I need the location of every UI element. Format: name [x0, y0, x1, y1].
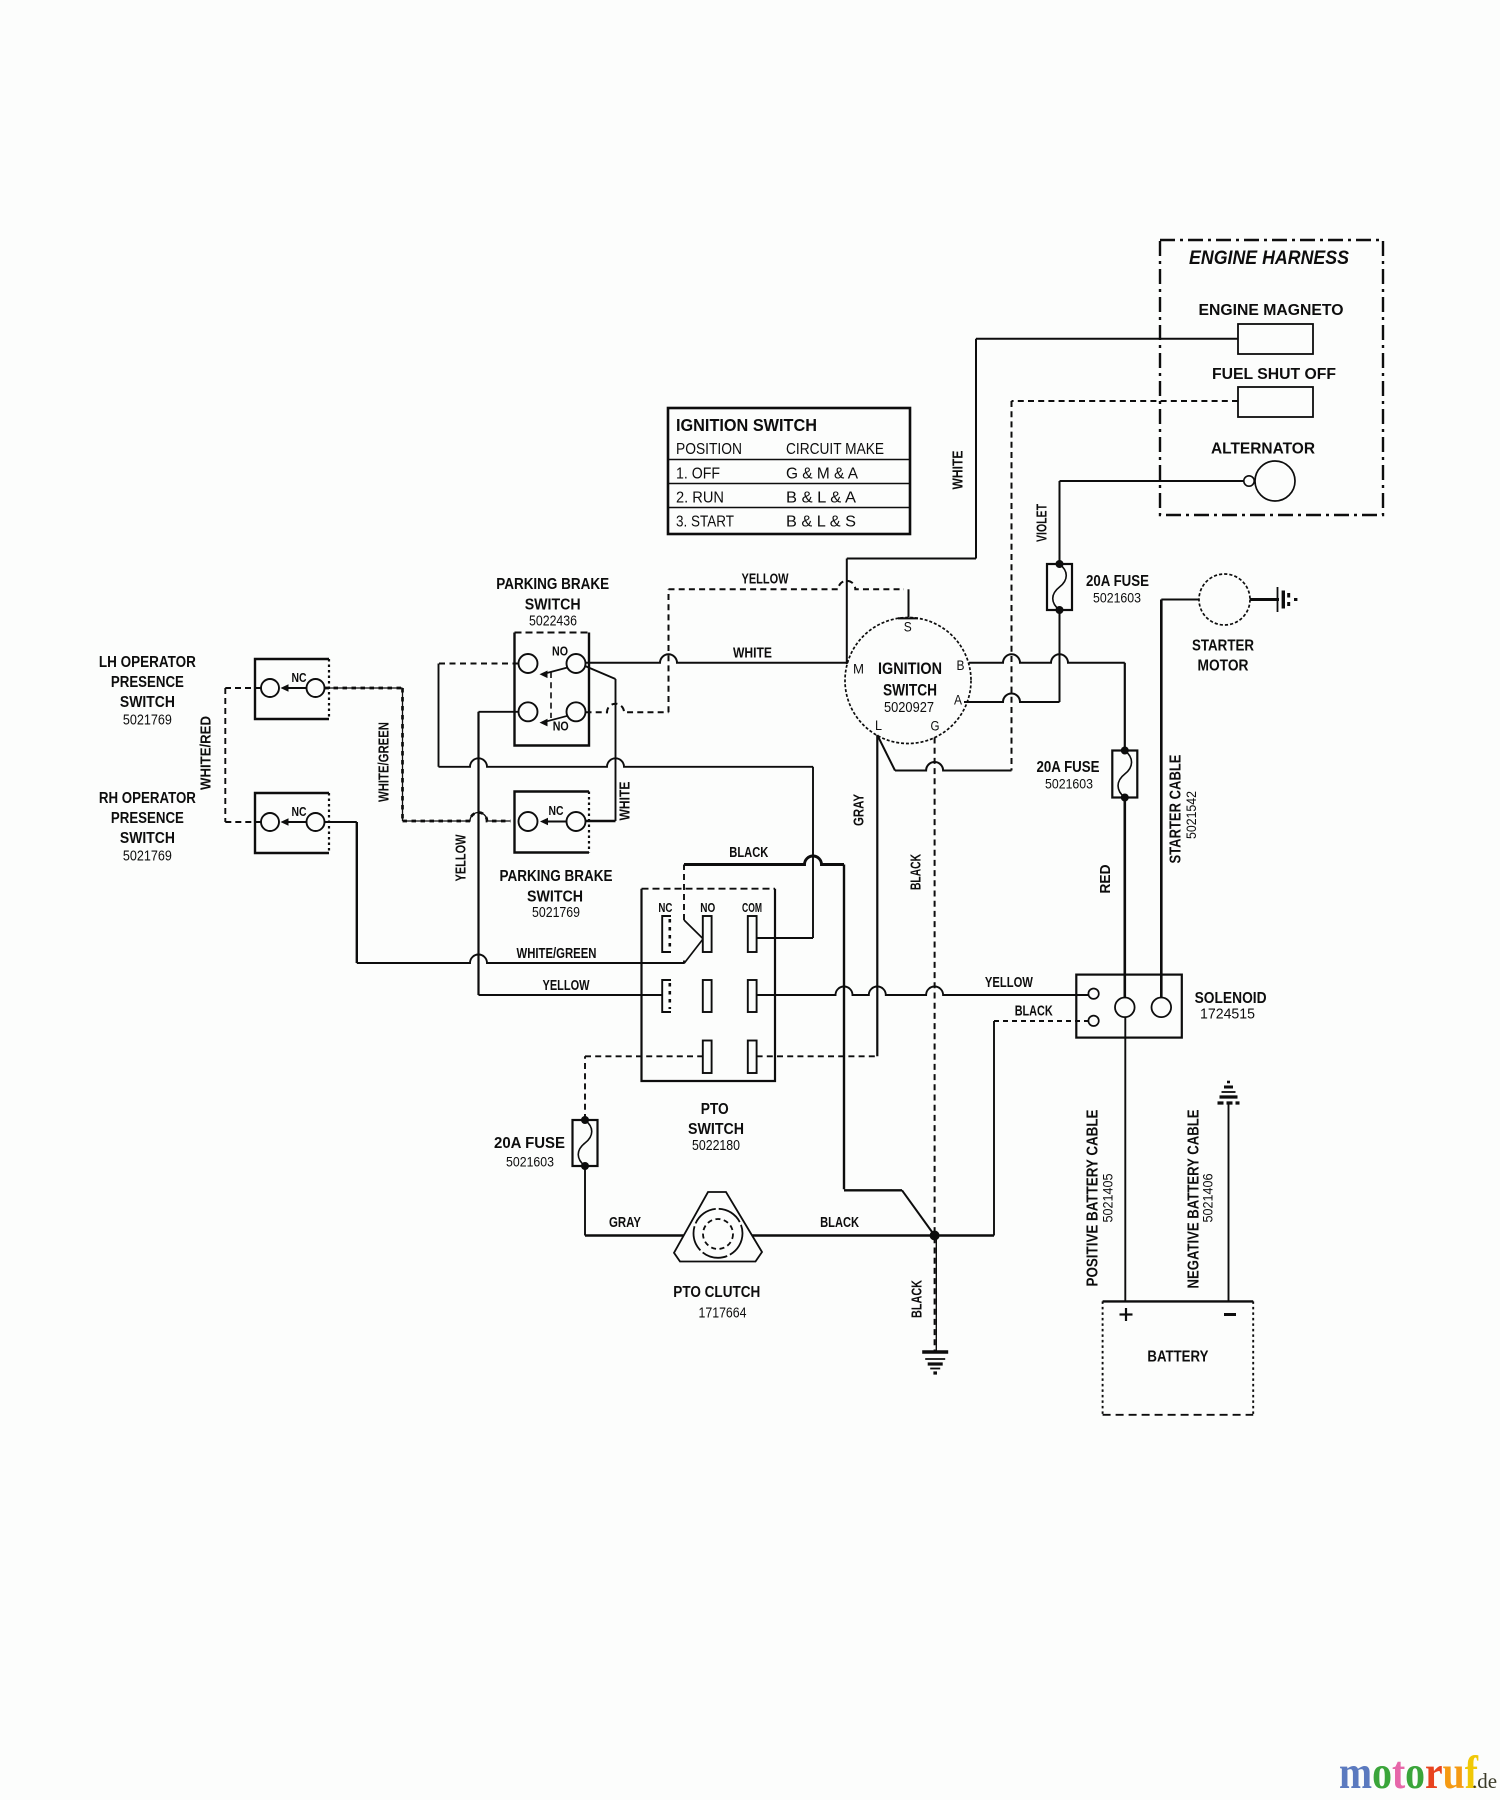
- fuse F2 label: [1037, 759, 1100, 792]
- yellow wire label: [742, 572, 789, 588]
- LH switch lever: [281, 684, 307, 692]
- wire white to M terminal: [586, 654, 847, 663]
- svg-text:PTO CLUTCH: PTO CLUTCH: [673, 1284, 760, 1301]
- wire white/green LH to PB2: [325, 688, 511, 821]
- svg-text:BLACK: BLACK: [909, 854, 925, 890]
- terminal A: [954, 693, 962, 708]
- solenoid box: [1076, 975, 1182, 1038]
- svg-text:BLACK: BLACK: [1015, 1004, 1053, 1020]
- white wire label (vertical): [951, 450, 967, 489]
- svg-text:A: A: [954, 693, 962, 708]
- svg-text:L: L: [875, 718, 882, 733]
- svg-text:WHITE/GREEN: WHITE/GREEN: [377, 722, 393, 802]
- table header row: [676, 441, 884, 458]
- svg-text:STARTER: STARTER: [1192, 638, 1254, 655]
- battery label: [1147, 1349, 1209, 1366]
- svg-text:WHITE/RED: WHITE/RED: [199, 716, 215, 790]
- svg-text:YELLOW: YELLOW: [454, 834, 470, 881]
- svg-text:M: M: [853, 662, 864, 677]
- svg-text:5021769: 5021769: [123, 849, 172, 865]
- table row OFF: [676, 466, 859, 483]
- gray wire label (vertical): [852, 794, 868, 826]
- svg-text:PARKING BRAKE: PARKING BRAKE: [500, 868, 613, 885]
- fuse F3 20A: [573, 1116, 598, 1170]
- svg-text:20A FUSE: 20A FUSE: [1086, 573, 1149, 590]
- svg-text:BLACK: BLACK: [729, 845, 768, 861]
- parking brake switch 2 box: [515, 792, 590, 853]
- white/red label (vertical): [199, 716, 215, 790]
- wire gray from L: [876, 735, 878, 1056]
- battery box: [1103, 1301, 1254, 1414]
- battery minus terminal: [1224, 1313, 1236, 1316]
- table line 3: [668, 507, 910, 509]
- svg-text:RH OPERATOR: RH OPERATOR: [99, 790, 196, 807]
- junction node: [930, 1231, 940, 1241]
- wire A to violet: [964, 694, 1060, 703]
- fuel shut off label: [1212, 366, 1336, 383]
- svg-text:5022436: 5022436: [529, 614, 577, 630]
- ignition switch circle: [845, 618, 971, 744]
- gray label: [609, 1215, 641, 1231]
- svg-text:NO: NO: [552, 644, 568, 659]
- PB1 lever top: [540, 668, 568, 679]
- svg-text:GRAY: GRAY: [609, 1215, 641, 1231]
- battery plus terminal: [1120, 1308, 1133, 1321]
- solenoid post starter: [1152, 998, 1172, 1018]
- svg-text:POSITION: POSITION: [676, 441, 742, 458]
- svg-text:NC: NC: [292, 804, 307, 819]
- svg-text:20A FUSE: 20A FUSE: [494, 1135, 565, 1152]
- svg-text:FUEL SHUT OFF: FUEL SHUT OFF: [1212, 366, 1336, 383]
- wire white/green RH to PTO: [325, 822, 704, 964]
- fuse F1 20A: [1047, 560, 1072, 614]
- RH switch lever: [281, 818, 307, 826]
- wire yellow dashed to S terminal: [586, 581, 909, 712]
- svg-text:NC: NC: [549, 803, 564, 818]
- svg-text:IGNITION: IGNITION: [878, 660, 942, 678]
- yellow label 3: [985, 975, 1033, 991]
- svg-text:ENGINE HARNESS: ENGINE HARNESS: [1189, 247, 1349, 269]
- alternator label: [1211, 441, 1315, 458]
- svg-text:SWITCH: SWITCH: [120, 830, 175, 847]
- svg-text:ENGINE MAGNETO: ENGINE MAGNETO: [1199, 302, 1344, 319]
- solenoid post battery: [1115, 998, 1135, 1018]
- svg-text:CIRCUIT MAKE: CIRCUIT MAKE: [786, 441, 884, 458]
- white/green label (vertical): [377, 722, 393, 802]
- PTO pin NO top: [703, 916, 712, 952]
- PB2 contact left: [519, 812, 538, 831]
- negative battery cable label: [1186, 1110, 1216, 1289]
- svg-text:RED: RED: [1098, 865, 1114, 894]
- chassis ground (main): [922, 1352, 948, 1373]
- fuel shut off box: [1238, 387, 1313, 417]
- positive battery cable: [1124, 1017, 1126, 1301]
- starter cable label: [1168, 755, 1200, 864]
- svg-text:5021769: 5021769: [123, 713, 172, 729]
- RH operator switch box: [255, 793, 329, 853]
- svg-text:ALTERNATOR: ALTERNATOR: [1211, 441, 1315, 458]
- wire white/red LH to RH: [225, 688, 261, 822]
- PTO pin NC mid: [662, 980, 671, 1012]
- svg-text:NO: NO: [700, 900, 715, 915]
- PB1 lever bottom: [540, 716, 568, 727]
- svg-text:SOLENOID: SOLENOID: [1195, 990, 1267, 1007]
- svg-text:motoruf: motoruf: [1339, 1747, 1478, 1799]
- wire black dashed from G: [935, 738, 937, 1353]
- parking brake switch 1 box: [515, 633, 590, 746]
- ignition switch name: [878, 660, 942, 716]
- alternator terminal: [1244, 476, 1254, 486]
- svg-text:B: B: [957, 658, 965, 673]
- PB2 lever: [540, 818, 567, 826]
- PTO clutch body: [674, 1192, 762, 1262]
- wire B to fuse F2: [969, 654, 1125, 750]
- ignition switch table box: [668, 408, 910, 534]
- table line 2: [668, 483, 910, 485]
- parking brake switch 1 label: [496, 576, 609, 630]
- svg-text:1724515: 1724515: [1200, 1007, 1255, 1023]
- terminal L: [875, 718, 882, 733]
- PB1 contact top-right: [567, 654, 586, 673]
- svg-text:5021603: 5021603: [1093, 590, 1141, 606]
- PTO pin NO mid: [703, 980, 712, 1012]
- LH switch contact left: [261, 679, 279, 697]
- PB1 contact bottom-left: [519, 702, 538, 721]
- svg-text:2. RUN: 2. RUN: [676, 490, 724, 507]
- svg-text:WHITE/GREEN: WHITE/GREEN: [517, 946, 597, 962]
- wire starter cable: [1161, 600, 1199, 998]
- svg-text:5021603: 5021603: [1045, 776, 1093, 792]
- svg-text:YELLOW: YELLOW: [742, 572, 789, 588]
- svg-text:YELLOW: YELLOW: [985, 975, 1033, 991]
- white wire label: [733, 646, 772, 662]
- svg-text:SWITCH: SWITCH: [527, 889, 583, 906]
- wire PB1 to PTO COM: [439, 664, 814, 939]
- starter motor label: [1192, 638, 1254, 675]
- terminal M: [853, 662, 864, 677]
- svg-text:PARKING BRAKE: PARKING BRAKE: [496, 576, 609, 593]
- PB2 NC label: [549, 803, 564, 818]
- wire yellow PB1 to PTO NC: [479, 712, 662, 995]
- svg-text:COM: COM: [742, 900, 762, 915]
- engine magneto label: [1199, 302, 1344, 319]
- svg-text:G: G: [931, 719, 940, 734]
- solenoid label: [1195, 990, 1267, 1023]
- svg-text:SWITCH: SWITCH: [688, 1121, 744, 1138]
- PTO pin labels: [658, 900, 762, 915]
- svg-text:5021769: 5021769: [532, 905, 580, 921]
- terminal G: [931, 719, 940, 734]
- LH operator switch box: [255, 659, 329, 719]
- negative battery cable: [1228, 1103, 1230, 1301]
- RH switch NC label: [292, 804, 307, 819]
- wire violet from alternator: [1060, 481, 1244, 564]
- svg-text:STARTER CABLE: STARTER CABLE: [1168, 755, 1185, 864]
- wire violet fuse to A-line: [1059, 610, 1061, 702]
- svg-text:1. OFF: 1. OFF: [676, 466, 720, 483]
- svg-text:GRAY: GRAY: [852, 794, 868, 826]
- engine harness title: [1189, 247, 1349, 269]
- svg-text:1717664: 1717664: [699, 1306, 747, 1322]
- wire black junction to solenoid: [935, 1021, 1089, 1236]
- wire from L terminal: [877, 735, 1011, 771]
- PB1 contact top-left: [519, 654, 538, 673]
- svg-text:WHITE: WHITE: [733, 646, 772, 662]
- svg-text:PRESENCE: PRESENCE: [111, 674, 184, 691]
- PTO pin NO bottom: [703, 1041, 712, 1074]
- PTO clutch label: [673, 1284, 760, 1322]
- svg-text:5020927: 5020927: [884, 700, 934, 716]
- PTO pin NC top: [662, 916, 671, 952]
- black label 2: [820, 1215, 859, 1231]
- svg-text:WHITE: WHITE: [951, 450, 967, 489]
- wire clutch line: [585, 1234, 935, 1236]
- black wire label 2 (vertical): [910, 1280, 926, 1318]
- PB1 NO label bottom: [553, 719, 569, 734]
- svg-text:PTO: PTO: [701, 1101, 729, 1118]
- white label (vertical): [618, 781, 634, 820]
- engine magneto box: [1238, 324, 1313, 354]
- starter motor circle: [1199, 574, 1250, 625]
- wire dashed PTO bottom row: [585, 1056, 877, 1120]
- svg-text:YELLOW: YELLOW: [543, 978, 590, 994]
- table row RUN: [676, 490, 857, 507]
- wire white from engine magneto: [847, 339, 1238, 664]
- svg-text:PRESENCE: PRESENCE: [111, 810, 184, 827]
- PTO clutch outer ring: [694, 1209, 743, 1258]
- PTO switch box: [642, 889, 776, 1081]
- alternator circle: [1255, 461, 1295, 501]
- PTO pin COM mid: [748, 980, 757, 1012]
- svg-text:VIOLET: VIOLET: [1035, 504, 1051, 542]
- PTO pin COM bottom: [748, 1041, 757, 1074]
- wire yellow PTO to solenoid: [757, 987, 1089, 996]
- solenoid terminal yellow: [1088, 989, 1098, 999]
- svg-text:WHITE: WHITE: [618, 781, 634, 820]
- svg-text:20A FUSE: 20A FUSE: [1037, 759, 1100, 776]
- svg-text:BLACK: BLACK: [820, 1215, 859, 1231]
- table line 1: [668, 459, 910, 461]
- chassis ground (negative): [1218, 1082, 1240, 1103]
- svg-text:5021603: 5021603: [506, 1154, 554, 1170]
- svg-text:B & L & S: B & L & S: [786, 514, 856, 531]
- svg-text:5021405: 5021405: [1101, 1174, 1116, 1223]
- LH switch NC label: [292, 670, 307, 685]
- svg-text:B & L & A: B & L & A: [786, 490, 857, 507]
- black label 3: [1015, 1004, 1053, 1020]
- svg-text:5021542: 5021542: [1184, 791, 1199, 839]
- fuse F2 20A: [1112, 747, 1137, 802]
- svg-text:NC: NC: [292, 670, 307, 685]
- RH operator presence switch label: [99, 790, 196, 865]
- svg-text:G & M & A: G & M & A: [786, 466, 859, 483]
- wire dashed fuel shut off: [1012, 401, 1239, 771]
- svg-text:LH OPERATOR: LH OPERATOR: [99, 654, 196, 671]
- PB1 NO label top: [552, 644, 568, 659]
- svg-text:BATTERY: BATTERY: [1147, 1349, 1209, 1366]
- PB1 contact bottom-right: [567, 702, 586, 721]
- wire white PB1 to PB2: [585, 666, 616, 821]
- terminal B: [957, 658, 965, 673]
- fuse F3 label: [494, 1135, 565, 1170]
- wire black PTO NO to junction: [684, 856, 935, 1236]
- PTO clutch inner ring: [703, 1219, 733, 1249]
- solenoid terminal black: [1088, 1016, 1098, 1026]
- svg-text:POSITIVE BATTERY CABLE: POSITIVE BATTERY CABLE: [1085, 1110, 1102, 1287]
- svg-text:IGNITION SWITCH: IGNITION SWITCH: [676, 415, 817, 435]
- svg-text:MOTOR: MOTOR: [1198, 658, 1249, 675]
- PTO switch label: [688, 1101, 744, 1154]
- svg-text:5021406: 5021406: [1201, 1174, 1216, 1223]
- PB2 contact right: [567, 812, 586, 831]
- RH switch contact left: [261, 813, 279, 831]
- parking brake switch 2 label: [500, 868, 613, 921]
- yellow label 2: [543, 978, 590, 994]
- PB1 mechanical link: [550, 672, 552, 718]
- wire gray fuse3 to clutch: [584, 1166, 586, 1236]
- wire red fuse F2 to solenoid: [1124, 798, 1127, 998]
- svg-text:NO: NO: [553, 719, 569, 734]
- PTO pin COM top: [748, 916, 757, 952]
- white/green label 2: [517, 946, 597, 962]
- motoruf.de logo: [1339, 1747, 1497, 1799]
- RH switch contact right: [307, 813, 325, 831]
- LH switch contact right: [307, 679, 325, 697]
- svg-text:3. START: 3. START: [676, 514, 734, 531]
- fuse F1 label: [1086, 573, 1149, 606]
- yellow label (vertical): [454, 834, 470, 881]
- violet wire label: [1035, 504, 1051, 542]
- black wire label (vertical): [909, 854, 925, 890]
- svg-text:SWITCH: SWITCH: [120, 694, 175, 711]
- svg-text:BLACK: BLACK: [910, 1280, 926, 1318]
- svg-text:SWITCH: SWITCH: [883, 682, 937, 700]
- engine harness boundary box: [1160, 240, 1383, 515]
- svg-text:5022180: 5022180: [692, 1138, 740, 1154]
- svg-text:.de: .de: [1472, 1769, 1497, 1793]
- ignition switch table title: [676, 415, 817, 435]
- wire starter to ground: [1250, 598, 1279, 601]
- terminal S: [898, 618, 918, 634]
- chassis ground (starter): [1278, 587, 1298, 612]
- svg-text:S: S: [904, 620, 912, 635]
- black label: [729, 845, 768, 861]
- LH operator presence switch label: [99, 654, 196, 729]
- table row START: [676, 514, 856, 531]
- svg-text:NC: NC: [658, 900, 672, 915]
- red wire label: [1098, 865, 1114, 894]
- positive battery cable label: [1085, 1110, 1116, 1287]
- svg-text:SWITCH: SWITCH: [525, 597, 581, 614]
